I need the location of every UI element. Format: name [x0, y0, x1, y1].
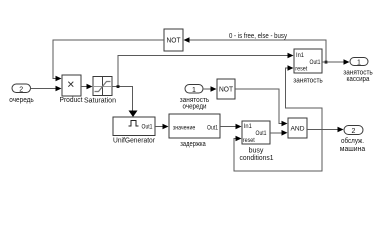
arrowhead into занятость reset: [288, 65, 294, 71]
op AND: [288, 118, 307, 138]
arrowhead into busy conditions1 reset: [236, 136, 242, 142]
subsystem UnifGenerator: [113, 117, 156, 145]
op NOT U1 (mirrored logical operator): [164, 29, 183, 51]
svg-text:reset: reset: [243, 138, 255, 144]
svg-text:AND: AND: [291, 126, 305, 133]
arrowhead into Product in2: [56, 86, 62, 92]
junction dot on saturation output: [117, 85, 120, 88]
arrowhead into busy conditions1 In1: [236, 124, 242, 130]
outport 1 занятость кассира: [343, 58, 373, 84]
wire junction up and right to занятость In1: [118, 56, 289, 87]
subsystem busy conditions1: [240, 121, 274, 162]
arrowhead into занятость кассира: [344, 59, 350, 65]
arrowhead into AND in1: [282, 121, 288, 127]
wire UnifGenerator Out1 to задержка: [155, 126, 164, 128]
trigger arrowhead down into UnifGenerator: [129, 111, 138, 118]
wire Product output to Saturation: [81, 86, 88, 88]
svg-text:Out1: Out1: [142, 124, 153, 131]
svg-text:Out1: Out1: [207, 125, 218, 132]
block Saturation: [84, 77, 116, 105]
svg-text:In1: In1: [244, 124, 253, 130]
svg-text:задержка: задержка: [180, 141, 206, 148]
svg-text:занятость: занятость: [293, 77, 323, 84]
svg-text:UnifGenerator: UnifGenerator: [113, 138, 156, 145]
wire очередь to Product in2: [31, 88, 57, 90]
svg-text:NOT: NOT: [167, 38, 182, 45]
svg-text:очередь: очередь: [9, 97, 34, 104]
svg-text:NOT: NOT: [219, 87, 234, 94]
wire reset net: занятость reset down across and around to busy conditions1 reset: [234, 68, 322, 171]
subsystem занятость: [293, 49, 323, 84]
svg-text:кассира: кассира: [347, 76, 370, 83]
wire NOT1 output left then down to Product in1: [53, 40, 164, 79]
arrowhead into задержка: [163, 124, 169, 130]
inport 1 занятость очереди: [180, 85, 210, 111]
svg-text:Out1: Out1: [310, 60, 322, 66]
svg-text:In1: In1: [296, 53, 305, 59]
svg-text:reset: reset: [295, 67, 307, 73]
svg-text:Out1: Out1: [256, 131, 268, 137]
svg-text:conditions1: conditions1: [240, 155, 274, 162]
junction dot on занятость output wire: [325, 61, 328, 64]
wire AND output to обслуж машина: [307, 129, 339, 131]
arrowhead into NOT2: [211, 86, 217, 92]
wire Saturation output to junction and UnifGenerator trigger: [112, 87, 133, 111]
svg-text:busy: busy: [249, 148, 264, 155]
wire NOT2 output right then down to AND in1: [235, 89, 283, 124]
outport 2 обслуж. машина: [340, 126, 366, 153]
inport 2 очередь: [9, 84, 34, 104]
op NOT U2: [217, 79, 235, 99]
wire busy conditions1 Out1 to AND in2: [270, 132, 283, 134]
svg-text:1: 1: [192, 87, 196, 94]
wire feedback from занятость Out1 junction up and left to NOT1 input: [189, 40, 326, 62]
svg-text:значение: значение: [173, 125, 196, 132]
arrowhead into Saturation: [87, 84, 93, 90]
svg-text:2: 2: [19, 86, 23, 93]
block Product: [60, 75, 83, 104]
svg-text:2: 2: [352, 128, 356, 135]
svg-text:0 - is free, else - busy: 0 - is free, else - busy: [229, 33, 287, 40]
arrowhead into NOT1 right side (mirrored block): [184, 37, 190, 43]
svg-text:машина: машина: [340, 146, 366, 153]
svg-text:1: 1: [357, 59, 361, 66]
arrowhead into Product in1: [56, 76, 62, 82]
wire занятость Out1 to занятость кассира: [322, 61, 345, 63]
subsystem задержка: [169, 114, 220, 148]
svg-text:Product: Product: [60, 97, 83, 104]
arrowhead into AND in2: [282, 130, 288, 136]
arrowhead into обслуж машина: [338, 127, 344, 133]
arrowhead into занятость In1: [288, 53, 294, 59]
svg-text:Saturation: Saturation: [84, 97, 116, 104]
svg-text:обслуж.: обслуж.: [341, 137, 364, 145]
svg-text:очереди: очереди: [183, 103, 207, 110]
wire задержка Out1 to busy conditions1 In1: [220, 126, 237, 128]
wire занятость очереди to NOT2: [203, 88, 212, 90]
